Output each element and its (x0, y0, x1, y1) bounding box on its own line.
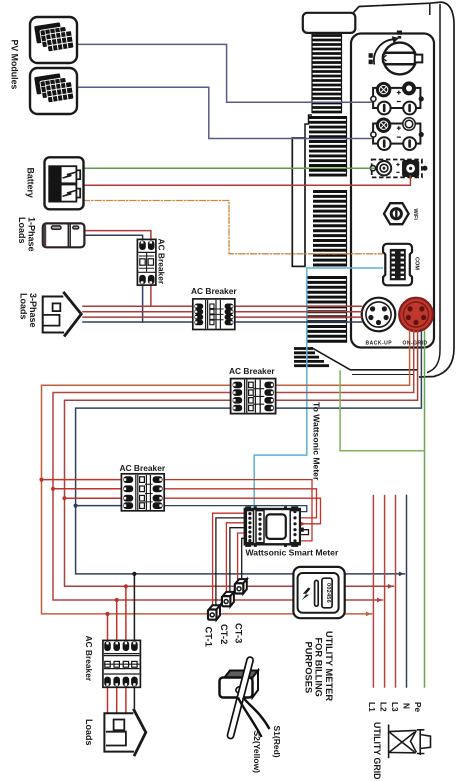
wire branch L3 (red) from grid bus to metering breaker (65, 497, 122, 499)
wire PV string 2 from PV modules to inverter PV2 input (77, 87, 371, 138)
junction dot L1 branch on grid bus (39, 478, 43, 482)
inverter bottom skirt (312, 348, 418, 375)
AC breaker 2-pole (1-phase) (137, 239, 156, 285)
svg-text:WiFi: WiFi (412, 209, 418, 221)
wire loads branch L1 (red) from grid bus down to loads breaker (107, 614, 109, 641)
heatsink side cover plate (292, 138, 305, 266)
utility grid pylon (389, 725, 431, 759)
wire battery communication (orange dash-dot) to inverter COM port (84, 201, 383, 254)
wire battery negative (red) from inverter BAT- down and left to battery (84, 176, 411, 185)
svg-text:AC Breaker: AC Breaker (229, 366, 275, 376)
wire L1 riser (red) to utility grid (372, 496, 374, 687)
wire grid N continuation right of utility meter into N riser (345, 573, 405, 575)
wire grid L1 (red) from ON-GRID port down, left through grid breaker, left and down to meter bus (42, 331, 410, 614)
wire backup bus L3 (red) (83, 316, 362, 318)
wire loads breaker output N (black) (133, 687, 135, 710)
svg-text:3-Phase: 3-Phase (28, 293, 38, 328)
wire grid L2 continuation right of utility meter into L2 riser (345, 599, 383, 601)
svg-text:Pe: Pe (413, 702, 423, 713)
3-phase loads house (43, 292, 82, 337)
junction dot L3 branch on grid bus (62, 496, 66, 500)
svg-text:1-Phase: 1-Phase (26, 217, 36, 252)
heatsink fin block 2 (309, 116, 347, 176)
svg-text:COM: COM (413, 257, 419, 270)
battery (45, 157, 84, 209)
svg-text:PURPOSES: PURPOSES (303, 642, 313, 694)
Wattsonic smart meter (245, 506, 304, 546)
wire loads branch N (black) (133, 574, 135, 641)
inverter side panel face (351, 34, 434, 348)
heatsink fin block 3 (313, 190, 347, 266)
heatsink fin block 4 (307, 276, 347, 342)
svg-text:Battery: Battery (26, 168, 36, 198)
junction dot loads L3 tap (124, 584, 128, 588)
PV1 input connector group (371, 81, 424, 114)
AC breaker 4-pole (metering) (121, 474, 164, 511)
CT-2 clamp (222, 592, 234, 606)
wire grid L3 (red) from ON-GRID port down into grid bus (65, 331, 418, 586)
wire backup bus L2 (red) (83, 311, 362, 313)
svg-text:AC Breaker: AC Breaker (157, 239, 167, 285)
wire grid L2 (red) from ON-GRID port down into grid bus (53, 331, 414, 600)
wire CT-2 S1 lead (red) to smart meter left terminal 3 (226, 523, 244, 592)
svg-text:L3: L3 (390, 702, 400, 712)
svg-text:FOR BILLING: FOR BILLING (314, 638, 324, 697)
svg-text:PV Modules: PV Modules (10, 40, 20, 90)
wire CT-3 S1 lead (red) to smart meter left terminal 5 (238, 533, 245, 580)
wire PV string 1 from PV modules to inverter PV1 input (77, 44, 371, 102)
WiFi antenna gland (hexagon) (384, 203, 409, 224)
junction dot loads L1 tap (105, 612, 109, 616)
wire loads breaker output L1 (red) down to loads (107, 687, 109, 713)
wire metering breaker N (navy) to smart meter right terminal 1 (164, 506, 307, 512)
svg-text:ON-GRID: ON-GRID (403, 341, 428, 347)
wire metering breaker L3 (red) to smart meter right terminal 3 (164, 498, 321, 524)
svg-text:CT-3: CT-3 (234, 623, 245, 643)
svg-text:AC Breaker: AC Breaker (191, 286, 237, 296)
arrowhead N into riser (399, 572, 404, 577)
junction dot loads L2 tap (115, 598, 119, 602)
CT-3 clamp (235, 579, 247, 593)
wire grid L1 continuation right of utility meter with arrow into L1 riser (345, 613, 372, 615)
svg-text:Loads: Loads (17, 217, 27, 244)
wire L2 riser (red) to utility grid (384, 496, 386, 687)
arrowhead meter sense wire (301, 522, 306, 526)
junction dot N branch on grid bus (74, 504, 78, 508)
svg-text:Wattsonic Smart Meter: Wattsonic Smart Meter (246, 548, 339, 558)
wire 1-phase loads neutral (navy) to 2-pole AC breaker (85, 235, 143, 239)
svg-text:UTILITY GRID: UTILITY GRID (372, 722, 382, 780)
wire loads branch L3 (red) (125, 586, 127, 640)
BAT input connector group (dashed) (370, 160, 427, 178)
AC breaker 4-pole (on-grid) (231, 379, 276, 414)
svg-text:N: N (401, 703, 411, 709)
wire RS485 (cyan) from COM port to Wattsonic smart meter (254, 268, 382, 509)
wire grid N (navy) from ON-GRID port down into grid bus (76, 331, 422, 574)
svg-text:AC Breaker: AC Breaker (120, 463, 166, 473)
heatsink fin block 5 (below skirt diagonal) (294, 349, 329, 366)
arrowhead L2 into riser (377, 598, 382, 603)
wire metering breaker L1 (red) wrap to smart meter right terminal 6 (164, 480, 312, 541)
wire grid PE (green) from ON-GRID port straight down to utility grid (424, 331, 426, 687)
svg-text:CT-1: CT-1 (204, 627, 215, 647)
heatsink cover step bracket (305, 115, 312, 138)
wire metering breaker L2 (red) to smart meter right terminal 2 (164, 489, 317, 518)
wire CT-1 S1 lead (red) to smart meter left terminal 1 (213, 513, 245, 604)
wire loads breaker output L2 (red) (116, 687, 118, 713)
wire loads branch L2 (red) (116, 600, 118, 640)
wire grid L3 continuation right of utility meter into L3 riser (345, 585, 394, 587)
svg-text:BACK-UP: BACK-UP (366, 341, 393, 347)
wire backup bus L1 (red) from 3-phase loads through 4-pole breaker to BACK-UP port (83, 305, 362, 307)
wire CT-2 S2 lead (black) to smart meter left terminal 4 (230, 528, 245, 592)
AC breaker 4-pole (loads, bottom) (103, 640, 140, 687)
heatsink fin block 1 (312, 34, 342, 113)
CT-1 clamp (208, 605, 220, 619)
wire battery positive (green) to inverter BAT terminal (84, 167, 375, 169)
DC switch knob (369, 31, 423, 75)
wire CT-1 S2 lead (black) to smart meter left terminal 2 (216, 518, 245, 605)
svg-text:Loads: Loads (19, 293, 29, 320)
svg-text:L2: L2 (379, 702, 389, 712)
svg-text:AC Breaker: AC Breaker (84, 636, 94, 682)
arrowhead L3 into riser (388, 584, 393, 589)
svg-text:CT-2: CT-2 (219, 624, 230, 644)
PV modules box 1 (30, 17, 77, 63)
inverter wall-mount bracket (top) (303, 13, 356, 33)
junction dot loads N tap (black) (132, 572, 136, 576)
wire 1-phase loads live (red) to 2-pole AC breaker (85, 231, 151, 239)
big CT clamp with rod (220, 656, 270, 739)
inverter outer shell profile (354, 2, 455, 377)
svg-text:S1(Red): S1(Red) (272, 726, 282, 758)
wire 2-pole breaker output neutral (navy) down to backup N bus (142, 286, 144, 323)
AC breaker 4-pole (3-phase backup) (193, 299, 235, 330)
BACK-UP output connector (362, 298, 396, 332)
loads house (bottom) (104, 709, 145, 756)
wire N riser (navy) to utility grid (406, 495, 408, 687)
wire 2-pole breaker output live (red) down to backup L1 bus (150, 286, 152, 307)
PV2 input connector group (371, 117, 424, 150)
wire branch N (navy) from grid bus to metering breaker (76, 505, 122, 507)
arrowhead L1 into riser (366, 612, 371, 617)
wire branch L2 (red) from grid bus to metering breaker (53, 488, 122, 490)
utility meter (293, 567, 344, 618)
wire chassis ground (green) from inverter enclosure to PE riser (340, 371, 424, 451)
junction dot L2 branch on grid bus (51, 487, 55, 491)
svg-text:UTILITY METER: UTILITY METER (324, 631, 334, 701)
svg-text:To Wattsonic Meter: To Wattsonic Meter (312, 402, 322, 481)
wire CT-3 S2 lead (black) to smart meter left terminal 6 (242, 538, 245, 579)
svg-text:Loads: Loads (84, 719, 94, 746)
svg-text:002456: 002456 (325, 583, 331, 603)
ON-GRID output connector (red) (399, 298, 433, 332)
wire smart meter auxiliary loop (black) on right nub (300, 530, 309, 535)
wire L3 riser (red) to utility grid (395, 496, 397, 687)
wire loads breaker output L3 (red) (125, 687, 127, 713)
1-phase loads socket (43, 223, 85, 247)
svg-text:S2(Yellow): S2(Yellow) (252, 731, 262, 774)
svg-text:L1: L1 (367, 702, 377, 712)
wire backup bus N (navy) (83, 321, 362, 323)
PV modules box 2 (30, 68, 77, 114)
wire branch L1 (red) from grid bus to metering breaker (42, 479, 122, 481)
COM port (383, 244, 412, 286)
